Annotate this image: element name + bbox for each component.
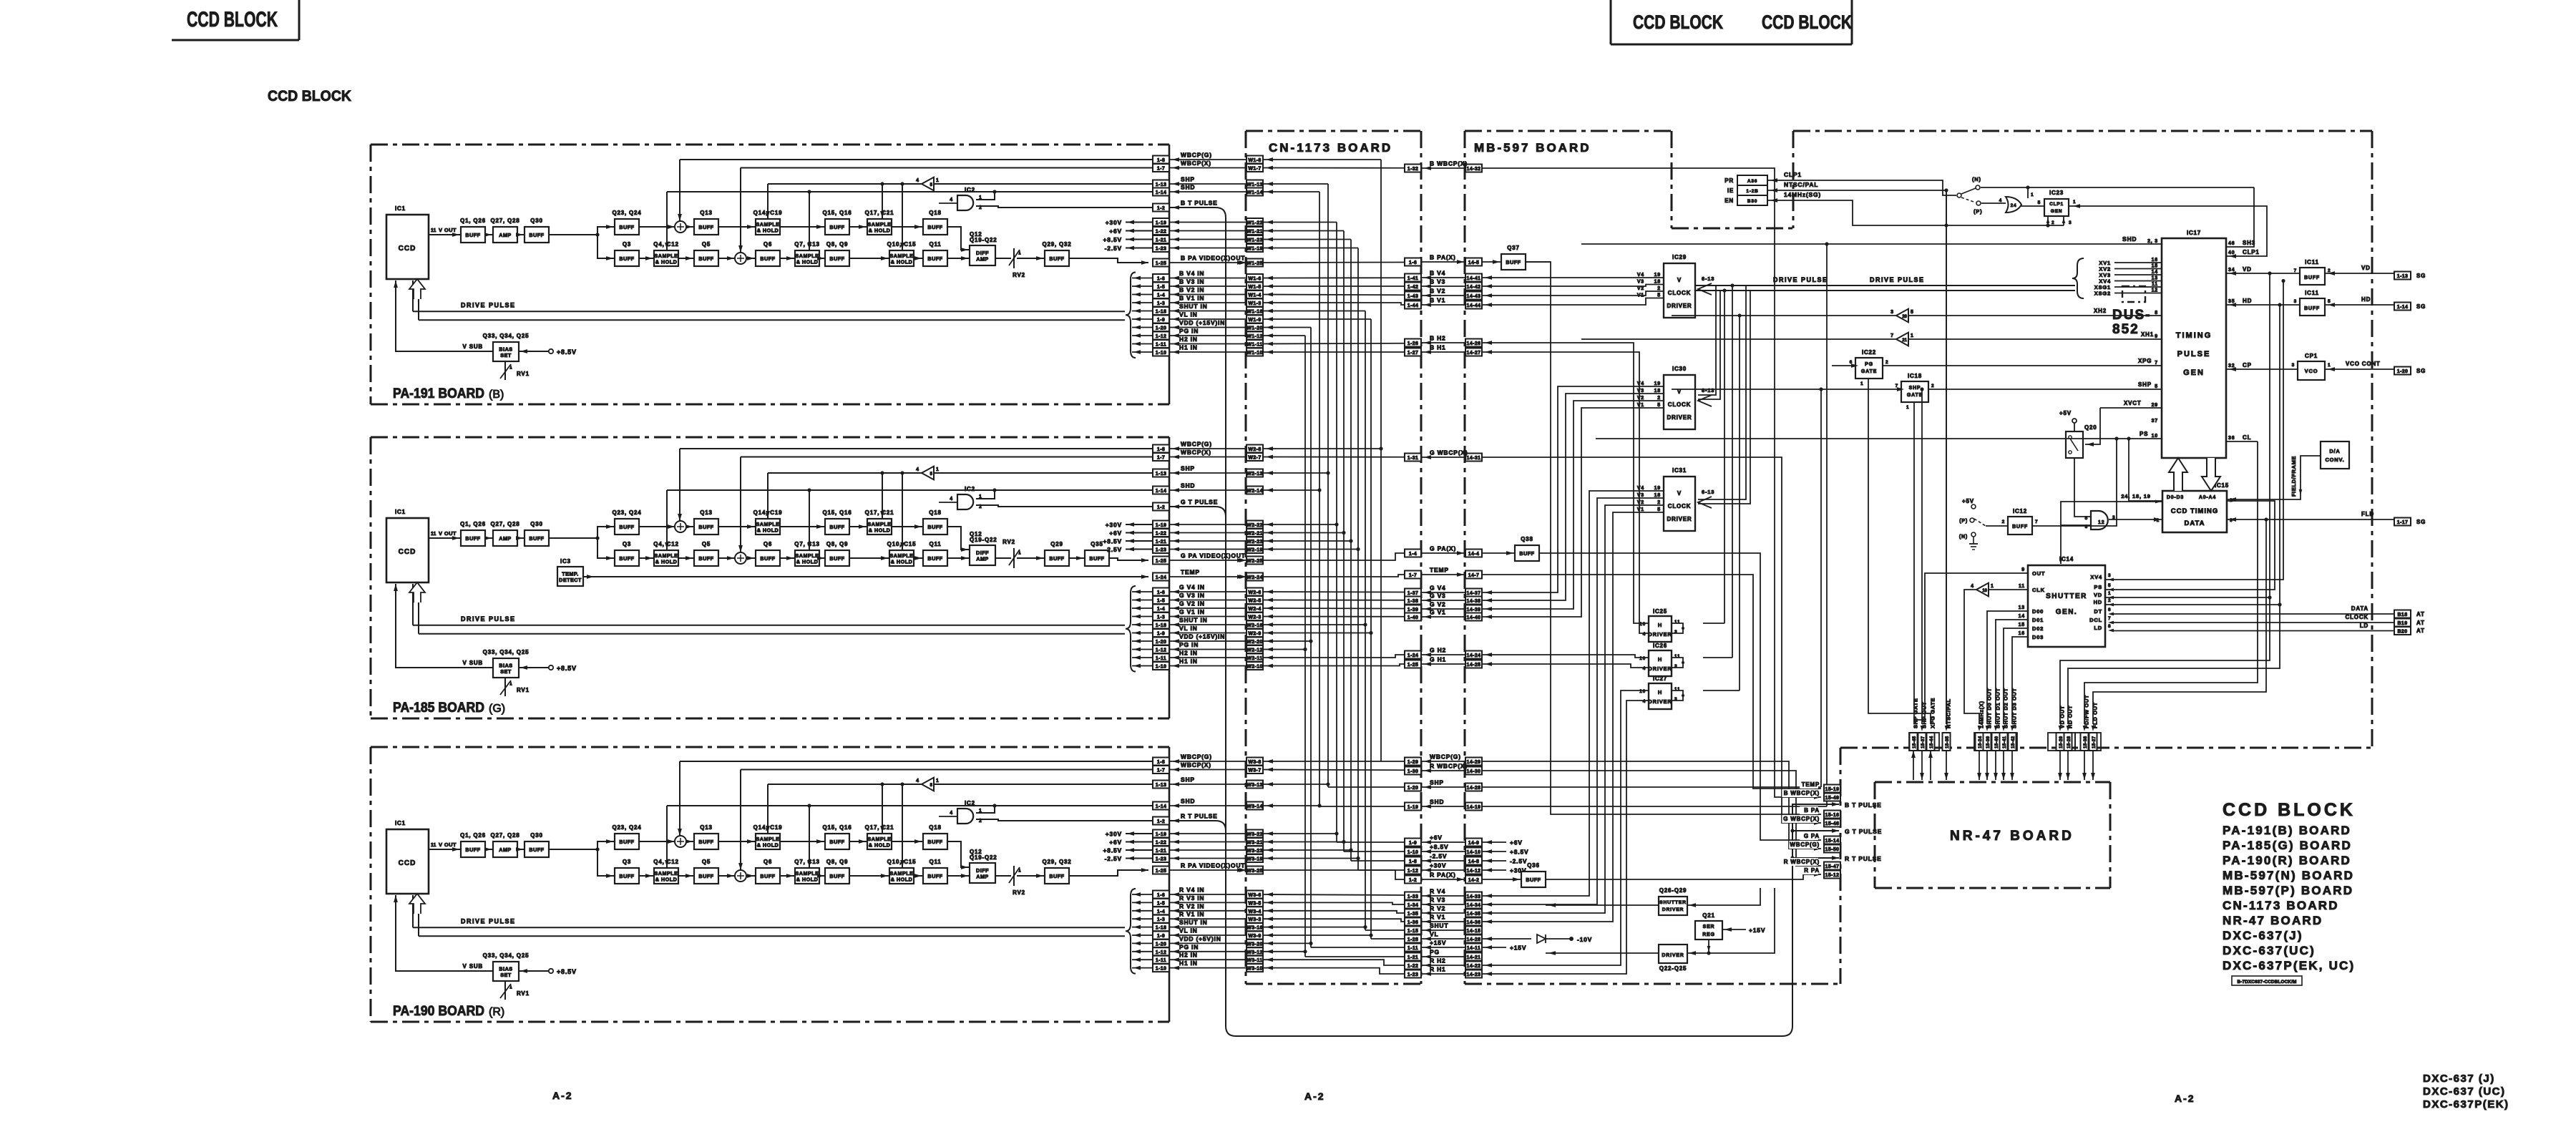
wire to split junction [549, 537, 597, 539]
svg-text:BUFF: BUFF [829, 839, 844, 845]
wire VL bus [1370, 319, 1372, 939]
svg-text:V4: V4 [1637, 486, 1644, 491]
wire PS feedback [2105, 439, 2275, 590]
wire XPG [1883, 365, 2162, 366]
wire SHD [667, 191, 1153, 192]
svg-text:W2-14: W2-14 [1246, 489, 1263, 494]
power stub +30V [1482, 869, 1506, 871]
svg-text:+6V: +6V [1109, 228, 1122, 235]
svg-text:R WBCP(X): R WBCP(X) [1784, 859, 1820, 865]
svg-text:-10V: -10V [1577, 936, 1592, 943]
wire WBCP(X) drop to summing node 2 [740, 770, 741, 872]
wire B H2 [1263, 343, 1405, 345]
svg-text:W2-21: W2-21 [1246, 532, 1263, 537]
svg-text:8: 8 [2108, 624, 2111, 629]
svg-text:1-30: 1-30 [1407, 769, 1419, 774]
wire DATA [2112, 613, 2394, 615]
svg-text:B V1 IN: B V1 IN [1179, 295, 1204, 302]
VCO CP1 [2298, 361, 2325, 380]
wire V SUB to CCD substrate [396, 584, 493, 668]
svg-text:7: 7 [1890, 333, 1893, 338]
svg-text:BUFF: BUFF [1049, 555, 1064, 562]
svg-text:PA-190(R) BOARD: PA-190(R) BOARD [2223, 854, 2351, 867]
pin W3-22 [1246, 830, 1263, 838]
svg-text:5: 5 [1911, 310, 1913, 315]
pin 1-18 SHUT IN [1153, 307, 1169, 315]
svg-text:14-44: 14-44 [1467, 303, 1481, 308]
svg-text:1-24: 1-24 [1156, 575, 1167, 580]
pin 1-12 PG IN [1153, 645, 1169, 653]
svg-text:14-2: 14-2 [1468, 878, 1480, 883]
svg-text:NTSC/PAL: NTSC/PAL [1946, 698, 1952, 728]
pin W3-9 [1246, 932, 1263, 940]
wire [849, 226, 867, 228]
wire B PA to NR-47 [1526, 261, 1551, 263]
buffer Q6 [756, 550, 780, 566]
pin 1-9 VL IN [1153, 932, 1169, 940]
inverter IC4 on SHP line [922, 177, 934, 191]
svg-text:R PA(X): R PA(X) [1430, 872, 1456, 879]
wire [914, 557, 923, 559]
svg-text:GEN: GEN [2051, 209, 2063, 214]
svg-text:W2-7: W2-7 [1248, 456, 1261, 461]
sample-hold Q14, C19 [756, 219, 780, 235]
bias set Q33, Q34, Q25 [493, 658, 519, 678]
svg-text:W1-7: W1-7 [1248, 167, 1261, 172]
pin 15-49 B WBCP(X) [1782, 789, 1818, 797]
svg-text:5: 5 [2328, 299, 2331, 304]
svg-text:1-25: 1-25 [1156, 261, 1167, 266]
pin W3-12 [1246, 947, 1263, 955]
svg-text:SHUT D2 OUT: SHUT D2 OUT [2003, 688, 2009, 728]
inverter 21 on XH1 [1896, 333, 1908, 346]
wire HD to IC14 and HD OUT [2105, 604, 2280, 605]
pin W2-4 [1246, 605, 1263, 613]
svg-text:Q15, Q16: Q15, Q16 [822, 509, 852, 516]
svg-text:V2: V2 [1637, 500, 1644, 505]
svg-text:Q36: Q36 [1527, 862, 1540, 869]
clamp pulse generator IC23 [2044, 199, 2069, 216]
svg-text:18: 18 [1654, 280, 1661, 285]
svg-text:1-15: 1-15 [1407, 929, 1419, 934]
svg-text:12: 12 [2098, 520, 2104, 525]
pin 1-3 V1 IN [1153, 299, 1169, 307]
svg-text:+15V: +15V [1510, 945, 1526, 952]
svg-text:1-21: 1-21 [1156, 238, 1167, 243]
svg-text:14: 14 [2152, 270, 2158, 275]
svg-text:SHD: SHD [1181, 482, 1195, 489]
pin 1-4 V2 IN [1153, 605, 1169, 613]
svg-text:5: 5 [1657, 293, 1661, 298]
svg-text:B18: B18 [2397, 613, 2407, 618]
svg-text:SHP: SHP [1181, 776, 1195, 784]
svg-text:& HOLD: & HOLD [796, 876, 819, 882]
svg-text:AMP: AMP [499, 232, 511, 238]
wire LD [2112, 630, 2394, 632]
svg-text:18: 18 [1654, 389, 1661, 394]
svg-text:1-2B: 1-2B [1746, 189, 1758, 194]
svg-text:1-10: 1-10 [1156, 967, 1167, 972]
pin 1-30 / 14-30 (R WBCP(X)) [1405, 767, 1421, 775]
pin 1-18 SHUT IN [1153, 923, 1169, 931]
svg-text:W1-23: W1-23 [1246, 238, 1263, 243]
svg-text:15-42: 15-42 [2011, 736, 2016, 748]
pin 1-6 V4 IN [1153, 891, 1169, 899]
wire B WBCP(X) to NR-47 [1482, 168, 1821, 797]
svg-text:W1-14: W1-14 [1246, 190, 1263, 195]
board outline PA-190 BOARD (R) [371, 746, 1169, 748]
svg-text:W3-5: W3-5 [1248, 901, 1261, 906]
block arrow down IC17 to IC15 [2202, 458, 2220, 491]
wire DRIVE PULSE pair [413, 927, 1125, 928]
wire B V1 [1263, 303, 1405, 305]
wire [849, 557, 889, 559]
svg-text:& HOLD: & HOLD [757, 841, 779, 848]
svg-text:40: 40 [2228, 250, 2235, 255]
svg-text:IC11: IC11 [2305, 290, 2319, 296]
pin 15-29 VD OUT [2057, 733, 2064, 751]
svg-text:15: 15 [2019, 623, 2025, 628]
svg-text:PG IN: PG IN [1179, 943, 1199, 950]
svg-text:SHP: SHP [1181, 465, 1195, 472]
wire G WBCP(X) to NR-47 [1482, 457, 1821, 823]
svg-text:D0-D3: D0-D3 [2167, 495, 2184, 500]
wire G PA VIDEO(X)OUT [1109, 558, 1148, 560]
pin 15-28 HD OUT [2064, 733, 2072, 751]
summing node 1 [675, 521, 686, 532]
svg-text:5: 5 [2038, 200, 2041, 205]
wires R V4-V1 to IC31 [1482, 491, 1664, 896]
svg-text:+6V: +6V [1430, 834, 1443, 841]
svg-text:+6V: +6V [1109, 530, 1122, 537]
svg-text:GATE: GATE [1861, 369, 1877, 374]
wire [718, 226, 756, 228]
svg-text:D01: D01 [2032, 617, 2044, 623]
svg-text:SHUT IN: SHUT IN [1179, 617, 1208, 624]
buffer Q8, Q9 [825, 868, 849, 884]
pin W1-11 [1246, 340, 1263, 348]
svg-text:IE: IE [1727, 187, 1734, 194]
svg-text:14-36: 14-36 [1467, 920, 1481, 925]
wire IC2 input [939, 816, 957, 817]
svg-text:IC23: IC23 [2049, 190, 2064, 196]
buffer Q18 [923, 834, 947, 849]
svg-text:1: 1 [2108, 591, 2111, 596]
svg-text:A-2: A-2 [2175, 1093, 2195, 1104]
wire [914, 258, 923, 259]
open arrow into CCD [409, 582, 425, 602]
svg-text:HD OUT: HD OUT [2067, 706, 2074, 728]
pin W2-13 [1246, 469, 1263, 477]
wire NTSC/PAL down [1946, 190, 1947, 724]
pin 1-11 H2 IN [1153, 956, 1169, 964]
wire TEMP to NR-47 [1482, 575, 1821, 789]
wire G V4 [1263, 591, 1405, 593]
wire WBCP(G) drop to summing node 1 [679, 761, 680, 836]
svg-text:DXC-637P(EK, UC): DXC-637P(EK, UC) [2223, 959, 2355, 972]
svg-text:15-50: 15-50 [1825, 847, 1840, 852]
pin W2-24 [1246, 573, 1263, 581]
pin W1-20 [1246, 323, 1263, 331]
svg-text:(P): (P) [1974, 208, 1982, 215]
power label +6V [1126, 532, 1153, 534]
pin W2-6 [1246, 588, 1263, 596]
wire DRIVE PULSE pair [413, 311, 1125, 312]
svg-text:4: 4 [1643, 699, 1646, 704]
svg-text:1-7: 1-7 [1157, 167, 1165, 172]
svg-text:SHUT D1 OUT: SHUT D1 OUT [1995, 688, 2001, 728]
amplifier Q27, Q28 [493, 841, 517, 857]
svg-text:8: 8 [2155, 311, 2158, 316]
svg-text:R WBCP(X): R WBCP(X) [1430, 763, 1468, 770]
wire SHD drop to sample-hold Q4 [666, 806, 668, 867]
svg-text:4: 4 [950, 497, 953, 502]
wire IC2 output 1 [976, 490, 995, 499]
svg-text:1: 1 [2031, 192, 2034, 197]
svg-text:PG IN: PG IN [1179, 641, 1199, 648]
svg-text:-2.5V: -2.5V [1105, 546, 1122, 553]
svg-text:W2-4: W2-4 [1248, 607, 1261, 612]
pin W2-20 [1246, 638, 1263, 645]
pin W1-5 [1246, 283, 1263, 291]
svg-text:IC22: IC22 [1862, 349, 1876, 356]
wire PS row [1596, 438, 2162, 439]
svg-text:1-38: 1-38 [1407, 599, 1419, 604]
wires to CN-1173 connector [1169, 448, 1246, 449]
svg-text:Q27, Q28: Q27, Q28 [490, 832, 519, 839]
svg-text:W3-22: W3-22 [1246, 832, 1263, 837]
pin 15-40 SHUT D1 OUT [1992, 733, 2000, 751]
svg-text:V3: V3 [1637, 389, 1644, 394]
svg-text:7: 7 [2155, 361, 2158, 366]
buffer Q3 [615, 250, 639, 266]
svg-text:DT: DT [2094, 608, 2102, 615]
wire Q18 to diff amp [947, 227, 970, 250]
svg-text:TEMP: TEMP [1430, 567, 1449, 574]
svg-text:BUFF: BUFF [927, 873, 942, 879]
wire G V1 [1263, 616, 1405, 618]
svg-text:1-13: 1-13 [1156, 472, 1167, 477]
svg-text:B19: B19 [2397, 621, 2407, 626]
svg-text:+6V: +6V [1109, 839, 1122, 846]
pin 1-39 / 14-39 (G V2) [1405, 605, 1421, 613]
board outline PA-191 BOARD (B) [371, 144, 1169, 146]
wire SHD into IC17 [1827, 243, 2162, 245]
svg-text:1-21: 1-21 [1407, 955, 1419, 960]
svg-text:W2-13: W2-13 [1246, 472, 1263, 477]
svg-text:& HOLD: & HOLD [891, 258, 913, 265]
temperature detector IC3 [557, 567, 583, 586]
wire [849, 841, 867, 842]
svg-text:W1-22: W1-22 [1246, 221, 1263, 226]
svg-text:W2-9: W2-9 [1248, 632, 1261, 637]
svg-text:14-21: 14-21 [1467, 955, 1481, 960]
CCD sensor IC1 (PA-191) [386, 215, 429, 279]
svg-text:1-25: 1-25 [1407, 663, 1419, 668]
wire SHD left stub [1581, 243, 1827, 245]
svg-text:1-25: 1-25 [1156, 869, 1167, 874]
wire 15-29 to NR-47 [2059, 751, 2061, 780]
svg-text:WBCP(G): WBCP(G) [1181, 753, 1212, 761]
sample-hold Q17, C21 [867, 219, 892, 235]
pin W1-12 [1246, 332, 1263, 340]
svg-text:D/A: D/A [2329, 448, 2340, 454]
wire SHD drop to sample-hold Q7 [807, 804, 811, 807]
svg-text:CCD BLOCK: CCD BLOCK [1633, 11, 1723, 33]
svg-text:BUFF: BUFF [465, 232, 480, 238]
wire SHP drop to sample-hold Q14 [767, 184, 769, 218]
svg-text:IC1: IC1 [395, 205, 406, 212]
connector PR/IE/EN [1737, 175, 1767, 185]
wire R V4 [1263, 894, 1405, 895]
wire R T PULSE from bottom loop [1172, 819, 1179, 823]
svg-text:14-26: 14-26 [1467, 341, 1481, 346]
diff amp Q12 Q19-Q22 [970, 863, 995, 883]
svg-text:V OUT: V OUT [439, 227, 457, 233]
svg-text:G T PULSE: G T PULSE [1845, 828, 1882, 835]
svg-text:R V3 IN: R V3 IN [1179, 894, 1204, 902]
pin W3-4 [1246, 907, 1263, 914]
svg-text:BUFF: BUFF [698, 873, 713, 879]
svg-text:G H1: G H1 [1430, 656, 1446, 663]
bias set Q33, Q34, Q25 [493, 962, 519, 981]
svg-text:W1-3: W1-3 [1248, 301, 1261, 306]
svg-text:W2-12: W2-12 [1246, 648, 1263, 653]
svg-text:& HOLD: & HOLD [655, 558, 678, 565]
summing node 2 [735, 552, 746, 564]
svg-text:PA-191 BOARD: PA-191 BOARD [393, 386, 484, 401]
svg-text:1-23: 1-23 [1156, 548, 1167, 553]
svg-text:1-14: 1-14 [1156, 804, 1167, 809]
svg-text:R PA VIDEO(X)OUT: R PA VIDEO(X)OUT [1181, 862, 1245, 869]
wire IC15 address bus to IC14 [2061, 502, 2162, 564]
buffer Q5 [694, 868, 718, 884]
svg-text:CN-1173 BOARD: CN-1173 BOARD [1269, 141, 1392, 155]
svg-text:15-44: 15-44 [1929, 736, 1934, 748]
svg-text:W1-10: W1-10 [1246, 351, 1263, 356]
svg-text:Q13: Q13 [700, 824, 713, 831]
svg-text:B30: B30 [1747, 199, 1757, 204]
wire [947, 557, 970, 559]
H driver IC25 [1649, 616, 1672, 642]
svg-text:W2-10: W2-10 [1246, 665, 1263, 670]
wire [1017, 258, 1045, 259]
pin 1-22 / 14-22 (R H2) [1405, 962, 1421, 970]
svg-text:V2: V2 [1637, 396, 1644, 401]
svg-text:SG: SG [2416, 368, 2426, 374]
svg-text:XPG: XPG [2138, 358, 2152, 364]
wire G PA(X) [1263, 553, 1405, 560]
svg-text:1-41: 1-41 [1407, 276, 1419, 281]
variable resistor RV2 [1013, 866, 1015, 886]
pin 1-25 / 14-25 (G H1) [1405, 660, 1421, 668]
svg-text:+8.5V: +8.5V [557, 665, 577, 672]
pin W3-21 [1246, 838, 1263, 846]
svg-text:+5V: +5V [1962, 498, 1974, 504]
buffer Q38 [1515, 545, 1539, 561]
wires SHUT D0-D3 to pins [1987, 611, 2028, 724]
wire 15-44 to NR-47 [1930, 751, 1931, 780]
pin 15-39 SHUT D0 OUT [1984, 733, 1991, 751]
svg-text:Q27, Q28: Q27, Q28 [490, 521, 519, 527]
svg-text:BUFF: BUFF [698, 839, 713, 845]
svg-text:BUFF: BUFF [829, 873, 844, 879]
svg-text:& HOLD: & HOLD [891, 876, 913, 882]
wire [639, 557, 654, 559]
svg-text:BUFF: BUFF [1089, 555, 1104, 562]
buffer IC11 (HD) [2300, 298, 2325, 316]
svg-text:RV1: RV1 [517, 687, 530, 693]
pin 1-5 V3 IN [1153, 596, 1169, 604]
pin 1-20 / 14-28 (SHP) [1405, 784, 1421, 791]
svg-text:FIELD/FRAME: FIELD/FRAME [2290, 456, 2297, 497]
svg-text:+30V: +30V [1430, 862, 1446, 869]
wire G H2 [1263, 655, 1405, 658]
svg-text:Q7, C13: Q7, C13 [794, 859, 819, 865]
brace drive-pulse grouping [1126, 889, 1136, 974]
OR gate 24 [2006, 197, 2021, 213]
wire WBCP(G) to NR-47 [1482, 761, 1821, 849]
wire XH1 [1908, 338, 2162, 340]
svg-text:1-13: 1-13 [1156, 182, 1167, 187]
svg-text:2: 2 [1657, 286, 1661, 291]
svg-text:G V3 IN: G V3 IN [1179, 592, 1205, 599]
svg-text:10: 10 [1982, 589, 1987, 593]
wires to CN-1173 connector [1169, 761, 1246, 762]
wire D/A to IC15 pin 2 [2226, 456, 2321, 499]
svg-text:SET: SET [500, 972, 512, 978]
outer frame pins FD/FLD group [2075, 733, 2101, 751]
svg-text:B-7DXC637-CCDBLOCK/M: B-7DXC637-CCDBLOCK/M [2237, 980, 2296, 985]
wire [746, 557, 756, 559]
svg-text:10: 10 [2152, 434, 2158, 439]
svg-text:MB-597(P) BOARD: MB-597(P) BOARD [2223, 884, 2353, 897]
svg-text:AT: AT [2416, 620, 2425, 626]
svg-text:14MHz(SG): 14MHz(SG) [1784, 191, 1821, 198]
power stub +15V [1482, 947, 1506, 948]
wire SHP to IC17 [1928, 389, 2162, 390]
svg-text:& HOLD: & HOLD [869, 227, 891, 233]
svg-text:SHP OUT: SHP OUT [1921, 702, 1928, 728]
power label +6V [1126, 841, 1153, 843]
svg-text:& HOLD: & HOLD [869, 841, 891, 848]
svg-text:1-23: 1-23 [1156, 857, 1167, 862]
wire [718, 557, 736, 559]
pin 1-7 / 14-7 (TEMP) [1405, 571, 1421, 579]
svg-text:DETECT: DETECT [559, 577, 582, 583]
wire AND input 8 [2061, 524, 2091, 526]
wire Q20 bottom to AND gate [2074, 458, 2091, 517]
svg-text:1-12: 1-12 [1156, 950, 1167, 955]
svg-text:V3: V3 [1637, 493, 1644, 498]
pin 1-44 / 14-44 (B V1) [1405, 301, 1421, 309]
svg-text:Q13: Q13 [700, 509, 713, 516]
pin 1-19 / 14-19 (SHD) [1405, 803, 1421, 811]
svg-text:32: 32 [2228, 363, 2235, 369]
svg-text:IC26: IC26 [1653, 643, 1667, 649]
wire R V2 [1263, 911, 1405, 913]
wire [1017, 875, 1045, 877]
svg-text:G PA(X): G PA(X) [1430, 545, 1456, 552]
wire [517, 849, 525, 850]
svg-text:1-39: 1-39 [1407, 607, 1419, 613]
svg-text:Q30: Q30 [530, 521, 543, 527]
svg-text:IC1: IC1 [395, 820, 406, 826]
svg-text:R H2: R H2 [1430, 957, 1446, 965]
open arrow 6-13 into IC30 [1698, 395, 1712, 406]
svg-text:V1: V1 [1637, 507, 1644, 512]
svg-text:VDD (+15V)IN: VDD (+15V)IN [1179, 319, 1225, 326]
